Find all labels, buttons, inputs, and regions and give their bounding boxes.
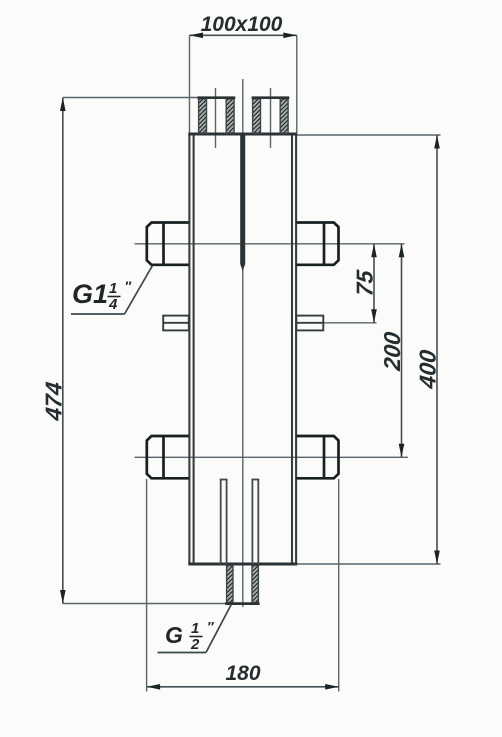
svg-text:200: 200: [379, 330, 405, 372]
svg-text:1: 1: [109, 280, 117, 297]
svg-text:100x100: 100x100: [201, 13, 283, 36]
svg-text:474: 474: [41, 380, 67, 422]
svg-text:G: G: [165, 622, 183, 648]
svg-text:75: 75: [352, 268, 378, 297]
svg-text:1: 1: [191, 620, 199, 637]
svg-text:″: ″: [207, 620, 214, 635]
svg-text:″: ″: [125, 279, 132, 294]
svg-text:2: 2: [190, 636, 200, 653]
svg-text:4: 4: [108, 296, 118, 313]
svg-text:180: 180: [225, 662, 260, 685]
svg-text:G1: G1: [72, 279, 108, 309]
svg-text:400: 400: [415, 348, 441, 390]
